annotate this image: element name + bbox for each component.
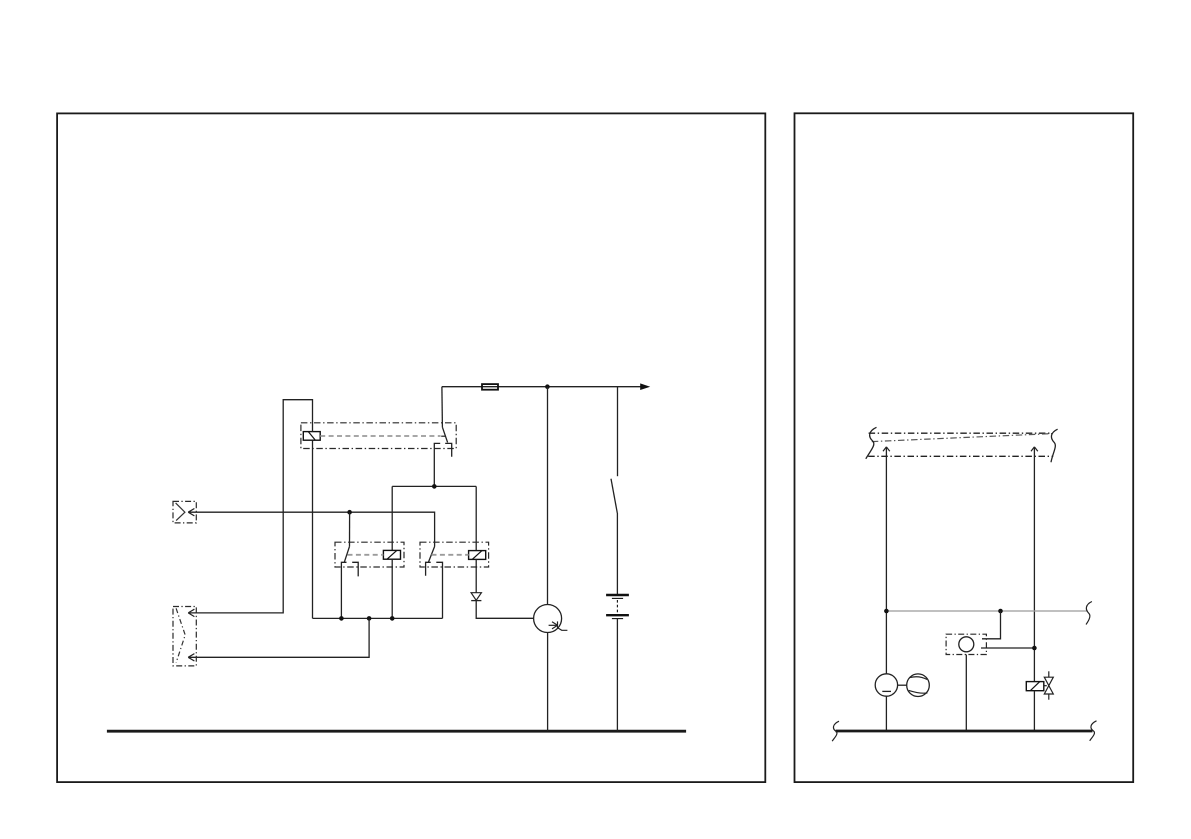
contact K3 right terminal bbox=[436, 562, 442, 618]
coil K3 bbox=[469, 551, 486, 560]
contact K1 blade bbox=[442, 427, 447, 442]
relay K1 enclosure bbox=[301, 423, 456, 449]
contact K3 blade bbox=[429, 547, 435, 563]
wire switch to battery bbox=[616, 513, 618, 594]
wire to coil K3 bbox=[475, 486, 477, 550]
wire battery to ground bbox=[616, 619, 618, 731]
ground bus (right panel) bbox=[836, 730, 1093, 733]
wire control from connector X1 bbox=[190, 512, 435, 546]
contact K2 blade bbox=[344, 546, 349, 562]
arrow valve feed bbox=[1031, 447, 1038, 451]
harness break left bbox=[866, 427, 877, 459]
arrow supply out bbox=[640, 383, 650, 390]
node valve wire tap bbox=[1032, 646, 1037, 651]
harness top edge bbox=[869, 432, 1052, 434]
gauge M1 needle bbox=[549, 621, 568, 630]
contact K1 NO terminal bbox=[434, 443, 440, 486]
fan vane bottom bbox=[909, 690, 928, 693]
node supply/motor junction bbox=[545, 384, 550, 389]
harness bottom edge bbox=[868, 455, 1053, 457]
arrow into connector X2 pin2 bbox=[188, 654, 194, 661]
wire motor to ground bbox=[885, 696, 887, 731]
arrow fan motor feed bbox=[883, 447, 890, 451]
wire sensor pin3 bbox=[965, 655, 967, 732]
left panel frame bbox=[57, 113, 765, 782]
fan vane top bbox=[910, 677, 927, 680]
wire valve feed bbox=[1033, 447, 1035, 681]
wire sensor pin2 bbox=[981, 647, 1034, 649]
diode V1 bbox=[475, 559, 477, 592]
wire fan motor feed bbox=[885, 447, 887, 674]
contact K2 right terminal bbox=[352, 562, 358, 576]
wire to coil K2 bbox=[391, 486, 393, 550]
wire coil branch tee bbox=[392, 485, 476, 487]
wire coil K1 down bbox=[312, 440, 314, 618]
wire diode to gauge bbox=[476, 601, 534, 619]
wire signal (shielded grey) bbox=[886, 610, 1087, 612]
battery G1 bbox=[606, 595, 629, 619]
motor M2 body bbox=[875, 674, 897, 696]
relay K3 enclosure bbox=[420, 542, 489, 567]
arrow into connector X1 bbox=[188, 509, 194, 516]
node control branch bbox=[347, 510, 352, 515]
motor M2 mark bbox=[882, 690, 891, 692]
node bus K2 left bbox=[339, 616, 344, 621]
fuse F1 bbox=[482, 384, 498, 390]
harness break right bbox=[1051, 429, 1058, 462]
node coil branch bbox=[432, 484, 437, 489]
connector X1 bbox=[173, 501, 196, 523]
wire bus to connector X2 pin2 bbox=[190, 618, 370, 657]
coil K1 bbox=[303, 432, 320, 441]
ground bus (left panel) bbox=[107, 730, 686, 733]
node signal sensor bbox=[998, 609, 1003, 614]
valve Y1 coil bbox=[1026, 682, 1044, 691]
contact K3 left terminal bbox=[426, 562, 431, 575]
switch S1 blade bbox=[611, 479, 617, 513]
wire valve to ground bbox=[1033, 691, 1035, 731]
arrow into connector X2 pin1 bbox=[188, 609, 194, 616]
connector X2 bbox=[173, 607, 196, 666]
valve Y1 body bbox=[1044, 671, 1053, 699]
contact K2 left terminal bbox=[341, 562, 346, 618]
wire coil K1 up bbox=[190, 400, 313, 613]
link K3 (mechanical) bbox=[432, 554, 469, 556]
node bus coil K2 bbox=[390, 616, 395, 621]
break ground right bbox=[1090, 721, 1097, 741]
link K1 (mechanical) bbox=[320, 435, 440, 437]
wire gauge to ground bbox=[547, 633, 549, 732]
sensor B1 element bbox=[959, 637, 974, 652]
wire switch feed bbox=[617, 387, 619, 477]
link motor fan bbox=[898, 684, 907, 686]
gauge M1 body bbox=[534, 605, 562, 633]
wire sensor pin1 bbox=[982, 611, 1001, 639]
sensor B1 enclosure bbox=[946, 634, 986, 654]
break ground left bbox=[832, 721, 839, 741]
wire coil K2 down bbox=[391, 559, 393, 618]
relay K2 enclosure bbox=[335, 542, 404, 567]
right panel frame bbox=[795, 113, 1134, 782]
link K2 (mechanical) bbox=[348, 554, 384, 556]
node bus connector branch bbox=[367, 616, 372, 621]
node signal left bbox=[884, 609, 889, 614]
wire motor feed bbox=[547, 387, 549, 605]
wire relay return bus bbox=[313, 617, 443, 619]
valve Y1 stub bbox=[1044, 685, 1047, 687]
fan body bbox=[907, 674, 930, 697]
wire branch to K2 blade bbox=[349, 512, 351, 546]
contact K1 common bbox=[441, 387, 444, 428]
break signal wire bbox=[1086, 602, 1092, 625]
wire supply line bbox=[442, 386, 641, 388]
harness inner wire bbox=[872, 434, 1052, 442]
contact K1 NC terminal bbox=[445, 443, 452, 456]
coil K2 bbox=[383, 550, 400, 559]
